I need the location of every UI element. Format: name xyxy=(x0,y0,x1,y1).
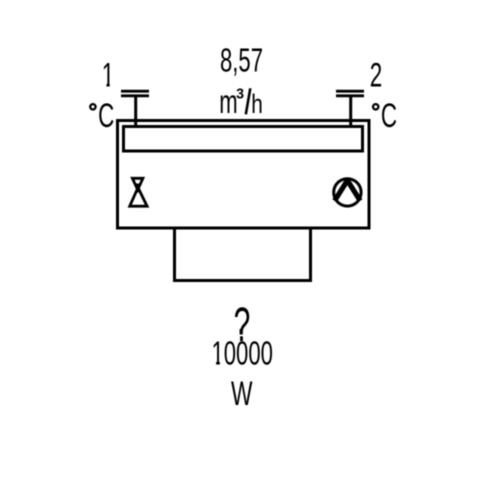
svg-text:2: 2 xyxy=(370,57,382,95)
svg-text:h: h xyxy=(251,90,263,120)
svg-text:C: C xyxy=(381,97,397,135)
svg-text:10000: 10000 xyxy=(211,335,272,371)
svg-text:3: 3 xyxy=(236,86,244,102)
svg-text:1: 1 xyxy=(102,57,114,95)
svg-text:m: m xyxy=(219,84,237,120)
svg-text:C: C xyxy=(98,97,114,135)
svg-text:W: W xyxy=(231,376,253,414)
svg-text:8,57: 8,57 xyxy=(220,42,263,78)
